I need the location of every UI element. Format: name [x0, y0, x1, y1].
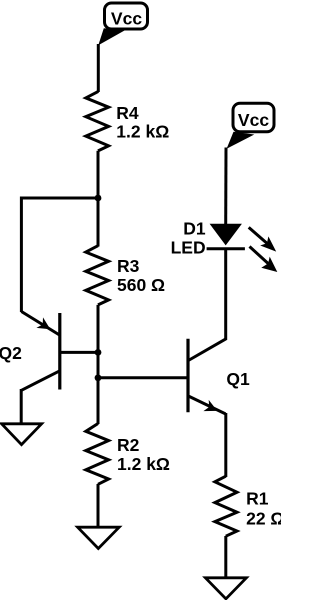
- svg-text:R2: R2: [117, 435, 140, 455]
- LED light arrow 1: [249, 227, 277, 251]
- transistor Q2: [21, 312, 98, 391]
- svg-text:Vcc: Vcc: [111, 9, 142, 29]
- wire Vcc1 to R4: [97, 44, 100, 92]
- wire Q1 emitter to R1: [224, 413, 227, 477]
- svg-text:560 Ω: 560 Ω: [117, 275, 165, 295]
- wire node A to left branch: [21, 197, 98, 200]
- wire R1 to ground: [224, 536, 227, 579]
- svg-text:Q2: Q2: [0, 343, 22, 363]
- node A junction: [95, 195, 102, 202]
- svg-text:D1: D1: [183, 219, 206, 239]
- svg-text:1.2 kΩ: 1.2 kΩ: [117, 454, 170, 474]
- power flag Vcc (top left): [98, 3, 147, 45]
- power flag Vcc (right): [227, 103, 274, 149]
- wire Q2 collector to ground: [20, 389, 23, 425]
- svg-text:Q1: Q1: [226, 369, 250, 389]
- node C junction (Q1 base): [95, 374, 102, 381]
- label R2 1.2 kOhm: [117, 435, 170, 474]
- label R4 1.2 kOhm: [116, 103, 169, 142]
- wire Vcc2 to LED anode: [224, 148, 227, 225]
- LED D1: [207, 224, 245, 249]
- label R1 22 Ohm: [246, 489, 284, 529]
- transistor Q1: [188, 339, 226, 414]
- svg-text:R1: R1: [246, 489, 269, 509]
- svg-text:22 Ω: 22 Ω: [246, 508, 281, 528]
- wire node A to R3: [97, 198, 100, 247]
- svg-text:R4: R4: [116, 103, 139, 123]
- LED light arrow 2: [250, 247, 278, 273]
- wire R4 to node A: [97, 151, 100, 200]
- wire node C to Q1 base: [98, 376, 188, 379]
- resistor R1: [215, 476, 237, 536]
- label D1 LED: [171, 219, 206, 258]
- svg-text:1.2 kΩ: 1.2 kΩ: [116, 122, 169, 142]
- resistor R4: [86, 91, 109, 150]
- resistor R3: [86, 246, 109, 305]
- wire Q1 collector up to LED: [224, 249, 227, 340]
- ground (under R1): [205, 578, 246, 599]
- svg-text:Vcc: Vcc: [238, 110, 269, 130]
- wire left branch down to Q2 emitter: [20, 197, 23, 313]
- svg-text:R3: R3: [117, 256, 140, 276]
- ground (under R2): [78, 527, 120, 548]
- ground (under Q2): [2, 424, 42, 445]
- wire R2 to ground: [97, 484, 100, 529]
- node B junction (Q2 base): [95, 349, 102, 356]
- label R3 560 Ohm: [117, 256, 165, 295]
- resistor R2: [86, 424, 109, 485]
- svg-text:LED: LED: [171, 237, 206, 257]
- wire R3 bottom through nodes B,C to R2: [97, 305, 100, 424]
